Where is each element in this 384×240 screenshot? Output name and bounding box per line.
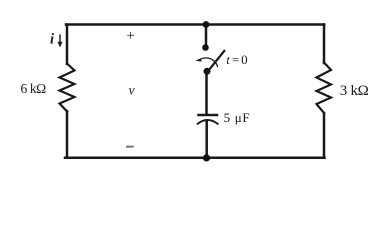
svg-text:5 μF: 5 μF bbox=[224, 110, 251, 125]
wire left lower bbox=[66, 111, 69, 158]
label minus bbox=[126, 146, 134, 148]
wire left upper bbox=[66, 25, 69, 65]
svg-text:6 kΩ: 6 kΩ bbox=[21, 81, 47, 96]
wire middle from switch to capacitor bbox=[205, 72, 208, 115]
wire top (node between 6k, switch, 3k) bbox=[66, 23, 324, 26]
wire middle from top node to switch bbox=[205, 25, 208, 48]
switch motion arc arrow bbox=[198, 58, 218, 67]
junction node bottom bbox=[203, 154, 210, 161]
resistor R1 6kohm zigzag bbox=[60, 64, 75, 112]
current arrow i bbox=[58, 34, 63, 47]
svg-text:t=0: t=0 bbox=[226, 52, 249, 67]
svg-text:3 kΩ: 3 kΩ bbox=[340, 83, 369, 99]
resistor R2 3kohm zigzag bbox=[317, 63, 332, 114]
wire right lower bbox=[323, 113, 326, 158]
capacitor C1 5uF bbox=[197, 115, 219, 124]
wire bottom bbox=[65, 156, 325, 159]
capacitor bottom curved plate bbox=[197, 120, 219, 124]
switch arrowhead bbox=[196, 58, 202, 62]
switch blade bbox=[207, 50, 226, 73]
switch S1 t=0 bbox=[196, 44, 225, 75]
svg-text:v: v bbox=[129, 83, 135, 98]
capacitor top plate bbox=[197, 114, 218, 116]
switch contact dot lower bbox=[204, 68, 211, 75]
svg-text:+: + bbox=[127, 28, 135, 44]
wire middle from capacitor to bottom node bbox=[205, 121, 208, 158]
junction node top bbox=[203, 21, 210, 28]
wire right upper bbox=[323, 25, 326, 64]
svg-text:i: i bbox=[50, 31, 54, 47]
switch contact dot upper bbox=[202, 44, 209, 51]
